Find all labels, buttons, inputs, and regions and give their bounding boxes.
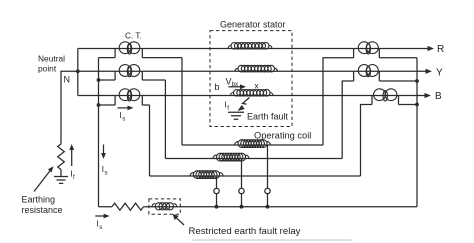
svg-text:s: s (105, 170, 108, 177)
wire neutral bus (77, 49, 79, 96)
CT left B secondary legs (115, 96, 142, 106)
svg-text:Neutral: Neutral (38, 54, 65, 64)
operating coil Y (213, 153, 249, 161)
arrow Is secondary current left B CT (118, 107, 130, 109)
wire left secondary bus (98, 58, 100, 207)
arrow leader to earthing resistance (34, 170, 51, 192)
stator winding B phase (231, 89, 274, 96)
node N junction (76, 69, 80, 73)
CT right Y secondary legs (354, 71, 380, 81)
svg-text:Operating coil: Operating coil (254, 131, 311, 141)
CT left R secondary legs (115, 49, 142, 58)
wire right Y CT rail to bus (379, 80, 417, 82)
svg-text:N: N (64, 75, 71, 85)
svg-text:resistance: resistance (22, 205, 63, 215)
CT left R windings (119, 42, 140, 54)
wire R phase line (78, 48, 429, 50)
wire left R CT rail (99, 57, 183, 59)
svg-text:b: b (215, 82, 220, 92)
arrow earth fault bolt (243, 98, 250, 105)
restricted earth fault relay coil (152, 203, 177, 210)
arrow R phase (428, 46, 435, 51)
svg-text:s: s (99, 224, 102, 231)
node right bus Y junction (415, 79, 419, 83)
svg-text:f: f (73, 174, 75, 181)
terminal circle x216.5 (214, 188, 219, 193)
wire right R CT rail to bus (379, 57, 417, 59)
wire right B pilot vertical (361, 105, 373, 177)
svg-text:s: s (122, 116, 125, 123)
node bus-Yrail junction (97, 78, 101, 82)
svg-text:B: B (435, 91, 442, 102)
node right bus B junction (415, 103, 419, 107)
operating coil B (190, 171, 223, 179)
svg-text:Generator stator: Generator stator (220, 20, 286, 30)
node stub junction x216.5 (215, 205, 219, 209)
svg-text:point: point (38, 64, 57, 74)
arrow Is bottom (95, 215, 105, 217)
arrow Vbx (229, 86, 242, 88)
arrow leader to relay box (176, 218, 184, 226)
wire right B CT rail to bus (399, 104, 418, 106)
wire right Y pilot vertical (342, 81, 353, 159)
generator stator dashed box (210, 31, 292, 127)
node bus-Brail junction (97, 103, 101, 107)
operating coil R (235, 140, 271, 148)
svg-text:R: R (437, 44, 444, 55)
svg-text:Earth fault: Earth fault (247, 112, 289, 122)
stator winding R phase (228, 42, 272, 49)
wire left Y CT rail (99, 79, 166, 81)
arrow If current (71, 149, 73, 166)
node stub junction x267.5 (266, 205, 270, 209)
resistor stabilising (112, 203, 144, 210)
wire Y operating coil line (165, 158, 342, 160)
CT right B windings (374, 89, 397, 101)
CT right B secondary legs (372, 96, 399, 105)
wire left B CT rail (99, 104, 150, 106)
CT left Y secondary legs (115, 71, 142, 80)
restricted earth fault relay box (149, 199, 180, 214)
CT right R windings (358, 42, 378, 54)
arrow Y phase (426, 69, 433, 74)
wire resistor to ground (60, 170, 62, 177)
wire relay stub x216.5 (216, 176, 218, 207)
svg-text:f: f (227, 105, 229, 112)
wire left B pilot vertical (149, 105, 151, 176)
wire relay stub x267.5 (267, 145, 269, 207)
node stub junction x241.5 (240, 205, 244, 209)
CT left Y windings (119, 65, 140, 77)
svg-text:Restricted earth fault relay: Restricted earth fault relay (189, 226, 301, 237)
terminal circle x241.5 (239, 188, 244, 193)
ground earth fault (228, 112, 244, 119)
wire left R pilot vertical (181, 58, 183, 145)
wire B phase line (78, 95, 426, 97)
ground earthing (54, 177, 68, 184)
CT right Y windings (358, 65, 378, 77)
wire right R pilot vertical (323, 58, 354, 145)
wire bottom rail (99, 206, 418, 208)
resistor earthing resistance (58, 144, 65, 170)
scan artifact streak (192, 239, 352, 241)
CT right R secondary legs (354, 49, 380, 58)
wire neutral to earth lead (61, 71, 78, 144)
svg-text:Y: Y (436, 68, 443, 79)
wire R operating coil line (182, 144, 323, 146)
svg-text:C. T.: C. T. (125, 32, 142, 41)
CT left B windings (119, 89, 140, 101)
wire left Y pilot vertical (164, 80, 166, 159)
wire Y phase line (78, 70, 427, 72)
wire right secondary bus (416, 58, 418, 207)
arrow Is on left bus (103, 145, 105, 155)
wire B operating coil line (150, 175, 361, 177)
terminal circle x267.5 (265, 188, 270, 193)
svg-text:x: x (255, 82, 259, 91)
arrow B phase (425, 93, 432, 98)
stator winding Y phase (235, 65, 278, 72)
wire relay stub x241.5 (241, 159, 243, 207)
svg-text:Earthing: Earthing (22, 195, 56, 205)
